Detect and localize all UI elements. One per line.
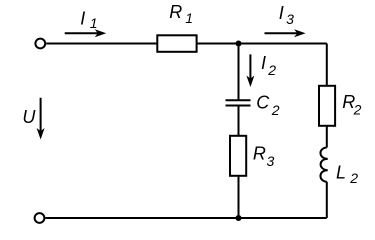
svg-text:I: I (261, 53, 266, 73)
svg-text:1: 1 (185, 10, 193, 26)
svg-text:3: 3 (286, 11, 294, 27)
svg-text:R: R (253, 143, 266, 163)
svg-text:2: 2 (349, 170, 358, 186)
svg-text:2: 2 (271, 102, 280, 118)
svg-text:I: I (279, 3, 284, 23)
svg-text:I: I (80, 9, 85, 29)
svg-text:R: R (169, 2, 182, 22)
svg-text:1: 1 (90, 15, 98, 31)
svg-text:3: 3 (267, 153, 275, 169)
svg-text:U: U (22, 107, 36, 127)
svg-text:L: L (336, 163, 346, 183)
svg-text:C: C (256, 93, 270, 113)
svg-text:2: 2 (267, 62, 276, 78)
svg-text:2: 2 (353, 101, 362, 117)
